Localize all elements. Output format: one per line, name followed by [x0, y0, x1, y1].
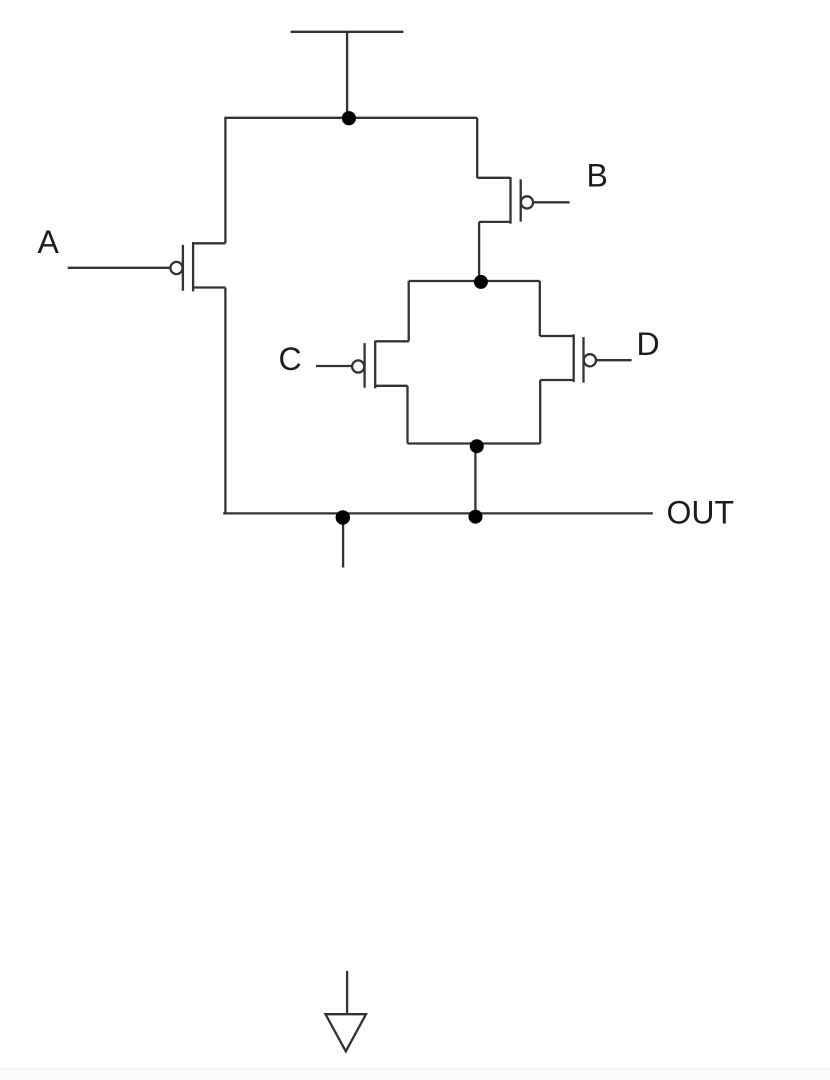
transistor M4 (PMOS, gate D) [540, 334, 596, 382]
svg-text:B: B [587, 157, 608, 193]
wire gate C input [316, 365, 352, 367]
svg-text:A: A [38, 224, 60, 260]
node junction on output rail left [336, 510, 350, 524]
power rail VDD bar [291, 31, 404, 33]
wire left branch upper vertical [224, 117, 226, 244]
transistor M1 (PMOS, gate A) [170, 242, 225, 291]
transistor M2 (PMOS, gate B) [477, 177, 533, 224]
wire right branch vertical to B source [476, 118, 478, 178]
wire gate A input [68, 267, 171, 269]
node junction at network bottom [470, 439, 484, 453]
wire network left lower vertical [406, 386, 408, 444]
wire parallel network bottom rail [408, 442, 541, 444]
wire left branch lower vertical [224, 288, 226, 515]
wire network right lower vertical [539, 380, 541, 444]
svg-text:C: C [279, 341, 302, 377]
ground symbol (open arrow) [326, 1014, 367, 1051]
wire stub below output rail [342, 518, 344, 568]
svg-text:OUT: OUT [667, 494, 735, 530]
node junction on output rail right [469, 510, 483, 524]
wire output rail [223, 512, 653, 514]
svg-text:D: D [637, 326, 660, 362]
wire parallel network top rail [409, 280, 540, 282]
wire network right upper vertical [539, 281, 541, 336]
wire VDD bar to top rail [346, 32, 348, 118]
transistor M3 (PMOS, gate C) [352, 341, 409, 389]
node junction at network top [474, 275, 488, 289]
wire network to output rail [474, 445, 476, 517]
wire network left upper vertical [408, 281, 410, 341]
wire B drain down to parallel network [478, 222, 480, 282]
bottom edge band [0, 1069, 830, 1080]
wire gate B input [533, 201, 569, 203]
wire top rail [225, 117, 477, 119]
node junction on top rail [342, 111, 356, 125]
ground arrow lead wire [346, 971, 348, 1014]
wire gate D input [596, 359, 631, 361]
